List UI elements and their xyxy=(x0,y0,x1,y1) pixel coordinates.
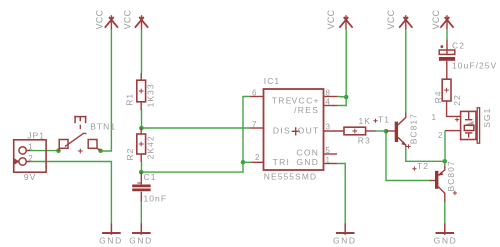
SG1 piezo disc xyxy=(464,121,473,125)
wire VCC1 down to button right pad xyxy=(101,30,112,151)
R4 origin cross xyxy=(444,88,449,93)
wire R2 to C1 node xyxy=(141,162,143,174)
svg-text:TRI: TRI xyxy=(273,157,291,167)
wire node TRI: R2/C1 to vertical x=243 xyxy=(142,97,251,173)
IC1 pin 8 xyxy=(324,96,338,98)
supply VCC arrow 5 xyxy=(440,15,453,30)
junction VCC/pin8/pin4 xyxy=(344,95,349,100)
resistor R1 body xyxy=(137,80,146,102)
IC1 pin 3 xyxy=(324,130,345,132)
ground symbol 4 xyxy=(436,223,455,235)
ground symbol 2 xyxy=(132,223,151,235)
svg-text:10nF: 10nF xyxy=(144,193,168,203)
capacitor C1 plates xyxy=(132,186,150,190)
C1 origin cross xyxy=(137,182,142,184)
wire IC pin1 to GND3 xyxy=(337,164,345,224)
svg-text:VCC+: VCC+ xyxy=(292,95,320,105)
wire T1 emitter to emitter node xyxy=(406,147,445,162)
svg-text:4: 4 xyxy=(326,98,331,107)
connector JP1 body xyxy=(14,140,46,172)
T1 emitter arrow xyxy=(401,141,405,145)
svg-text:R1: R1 xyxy=(124,93,134,106)
resistor R3 body xyxy=(344,127,366,135)
svg-text:BC817: BC817 xyxy=(408,113,418,144)
svg-text:5: 5 xyxy=(326,146,331,155)
JP1 pin2 polarity marker xyxy=(14,158,19,164)
T1 collector xyxy=(398,113,406,125)
supply VCC arrow 3 xyxy=(339,15,352,30)
wire T1 base node down to T2 base xyxy=(386,131,429,181)
svg-text:GND: GND xyxy=(296,157,319,167)
T1 name origin cross xyxy=(373,119,377,123)
svg-text:22: 22 xyxy=(452,94,462,106)
svg-text:1K: 1K xyxy=(359,116,372,126)
svg-text:8: 8 xyxy=(326,88,331,97)
wire R3 to T1 base node xyxy=(376,130,387,132)
T2 base bar xyxy=(435,171,438,189)
R1 origin cross xyxy=(139,89,144,94)
SG1 origin cross xyxy=(455,118,459,122)
supply VCC arrow 1 xyxy=(105,15,118,30)
svg-text:2: 2 xyxy=(438,131,443,140)
wire R1 to R2 node xyxy=(141,110,143,129)
resistor R2 body xyxy=(137,134,146,154)
R2 origin cross xyxy=(139,142,144,147)
svg-text:2: 2 xyxy=(28,154,33,163)
svg-text:VCC: VCC xyxy=(386,9,396,29)
wire T2 collector to GND4 xyxy=(444,202,446,223)
C2 pin from VCC xyxy=(446,40,448,54)
C2 bottom plate (filled) xyxy=(439,57,455,61)
SG1 piezo element bottom xyxy=(465,133,472,138)
IC1 pin 1 xyxy=(324,163,338,165)
IC1 origin cross xyxy=(292,127,300,135)
IC1 pin 4 xyxy=(324,105,338,107)
BC817 value origin cross xyxy=(406,144,410,148)
button BTN1 left contact xyxy=(59,140,69,151)
svg-text:GND: GND xyxy=(434,235,458,245)
svg-text:NE555SMD: NE555SMD xyxy=(264,172,317,182)
junction at button left pad xyxy=(56,149,61,154)
wire JP1 pin2 to GND1 xyxy=(30,162,112,224)
wire VCC4 down to T1 collector xyxy=(405,30,407,113)
svg-text:9V: 9V xyxy=(24,172,37,182)
wire VCC2 down to R1 xyxy=(141,30,143,74)
svg-text:VCC: VCC xyxy=(326,9,336,29)
C2 polarity dot xyxy=(441,45,444,48)
IC1 pin 7 xyxy=(250,127,264,129)
supply VCC arrow 4 xyxy=(399,15,412,30)
svg-text:R2: R2 xyxy=(125,148,135,161)
svg-text:GND: GND xyxy=(129,235,153,245)
ground symbol 1 xyxy=(102,223,121,235)
svg-text:GND: GND xyxy=(333,235,357,245)
svg-text:6: 6 xyxy=(252,88,257,97)
resistor R3 right pin xyxy=(366,130,376,132)
T2 collector xyxy=(438,187,445,203)
wire button left pad to JP1 pin1 xyxy=(30,150,59,152)
svg-text:R4: R4 xyxy=(433,90,443,103)
svg-text:SG1: SG1 xyxy=(482,108,492,128)
IC1 pin 2 xyxy=(252,161,264,163)
SG1 body xyxy=(461,111,476,139)
JP1 pin 2 xyxy=(19,158,30,165)
wire VCC5 down to C2 xyxy=(446,30,448,40)
svg-text:OUT: OUT xyxy=(298,126,320,136)
svg-text:T1: T1 xyxy=(378,114,390,124)
svg-text:1: 1 xyxy=(432,113,437,122)
svg-text:10uF/25V: 10uF/25V xyxy=(452,61,497,71)
T1 emitter xyxy=(398,137,406,147)
C2 bottom pin to R4 xyxy=(446,61,448,79)
svg-text:T2: T2 xyxy=(417,161,429,171)
IC1 pin 6 xyxy=(250,96,264,98)
button BTN1 lever xyxy=(65,133,87,146)
svg-text:DIS: DIS xyxy=(273,126,291,136)
T2 emitter xyxy=(438,166,445,175)
T1 base bar xyxy=(395,122,398,142)
svg-text:JP1: JP1 xyxy=(27,130,45,140)
resistor R4 body xyxy=(442,79,451,101)
capacitor C1 pins xyxy=(140,172,142,201)
button BTN1 plunger xyxy=(74,116,86,129)
R4 bottom pin to SG1 pin1 xyxy=(447,101,461,116)
svg-text:BC807: BC807 xyxy=(446,160,456,191)
svg-text:BTN1: BTN1 xyxy=(90,121,116,131)
SG1 sound plate xyxy=(477,108,479,144)
T2 base pin xyxy=(429,180,436,182)
svg-text:/RES: /RES xyxy=(294,105,319,115)
resistor R1 pins xyxy=(140,73,142,110)
junction T1 base / T2 base xyxy=(384,129,389,134)
ground symbol 3 xyxy=(336,223,355,235)
BC807 value origin cross xyxy=(453,191,457,195)
wire node DIS to IC pin7 xyxy=(142,127,251,129)
wire emitter node up to SG1 pin2 xyxy=(444,131,446,162)
junction R1/R2/DIS xyxy=(139,126,144,131)
IC1 pin 5 xyxy=(324,153,338,155)
SG1 piezo element top xyxy=(465,112,472,120)
JP1 pin 1 xyxy=(19,147,30,154)
T2 emitter arrow xyxy=(439,172,443,176)
button BTN1 right contact xyxy=(88,140,100,151)
svg-text:2K42: 2K42 xyxy=(146,135,156,159)
BTN1 origin cross xyxy=(78,149,83,154)
svg-text:2: 2 xyxy=(255,153,260,162)
svg-text:CON: CON xyxy=(296,147,319,157)
SG1 pin 2 lead xyxy=(445,130,461,132)
junction emitters / SG1 pin2 xyxy=(443,159,448,164)
svg-text:VCC: VCC xyxy=(95,9,105,29)
wire TRI tap to IC pin2 xyxy=(243,161,252,163)
T1 base pin xyxy=(386,130,395,132)
wire C1 to GND2 xyxy=(140,201,142,223)
resistor R2 pins xyxy=(140,128,142,163)
svg-text:GND: GND xyxy=(99,235,123,245)
svg-text:VCC: VCC xyxy=(123,9,133,29)
wire emitter node down to T2 emitter xyxy=(444,161,446,166)
T2 name origin cross xyxy=(412,167,416,171)
wire IC pin4 to VCC node xyxy=(337,97,346,106)
svg-text:3: 3 xyxy=(326,123,331,132)
junction R2/C1/TRI xyxy=(139,170,144,175)
svg-text:TRE: TRE xyxy=(272,95,293,105)
svg-text:C1: C1 xyxy=(144,172,157,182)
svg-text:C2: C2 xyxy=(452,40,465,50)
svg-text:1K33: 1K33 xyxy=(146,83,156,107)
junction at button right pad xyxy=(98,149,103,154)
svg-text:1: 1 xyxy=(326,156,331,165)
svg-text:R3: R3 xyxy=(358,135,371,145)
junction TRI tap xyxy=(241,160,246,165)
svg-text:VCC: VCC xyxy=(431,9,441,29)
svg-text:7: 7 xyxy=(252,120,257,129)
C2 top plate (outline) xyxy=(439,50,455,54)
wire VCC3 down to IC pin8 node xyxy=(337,30,346,97)
R3 origin cross xyxy=(352,129,357,134)
svg-text:1: 1 xyxy=(28,143,33,152)
svg-text:IC1: IC1 xyxy=(264,76,280,86)
supply VCC arrow 2 xyxy=(135,15,148,30)
IC1 body xyxy=(264,89,324,170)
